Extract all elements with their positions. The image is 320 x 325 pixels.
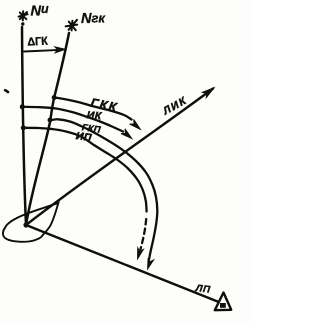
svg-text:ИП: ИП (75, 130, 92, 144)
svg-text:ЛП: ЛП (194, 283, 212, 296)
node dot C on Nгк line (start of ГКП arc) (48, 118, 53, 123)
svg-text:Nи: Nи (31, 2, 49, 20)
node dot A on Nгк line (start of ГКК arc) (52, 95, 57, 100)
ship hull (3, 203, 58, 242)
bearing line ЛП (26, 225, 218, 302)
svg-text:ЛИК: ЛИК (160, 94, 189, 117)
svg-text:ИК: ИК (86, 109, 103, 122)
arc ГКП (50, 119, 157, 261)
star Nгк (66, 20, 78, 31)
arc ИК (22, 107, 123, 132)
arc ИП (dashed lower part) (24, 128, 147, 212)
stray ink mark at left edge (5, 90, 8, 92)
meridian line Nи (vertical) (22, 27, 26, 225)
origin dot (ship position) (23, 222, 28, 227)
node dot D on Nи line (start of ИП arc) (21, 125, 26, 130)
course line ЛИК (26, 89, 213, 226)
svg-text:Nгк: Nгк (81, 10, 106, 27)
svg-text:ΔГК: ΔГК (27, 35, 48, 48)
landmark triangle (215, 293, 231, 311)
node dot B on Nи line (start of ИК arc) (20, 104, 25, 109)
meridian start dot below star (21, 22, 24, 25)
star Nи (19, 11, 28, 20)
arrow ΔГК (24, 50, 59, 52)
arc ГКК (54, 98, 132, 120)
meridian line Nгк (tilted) (26, 33, 69, 225)
